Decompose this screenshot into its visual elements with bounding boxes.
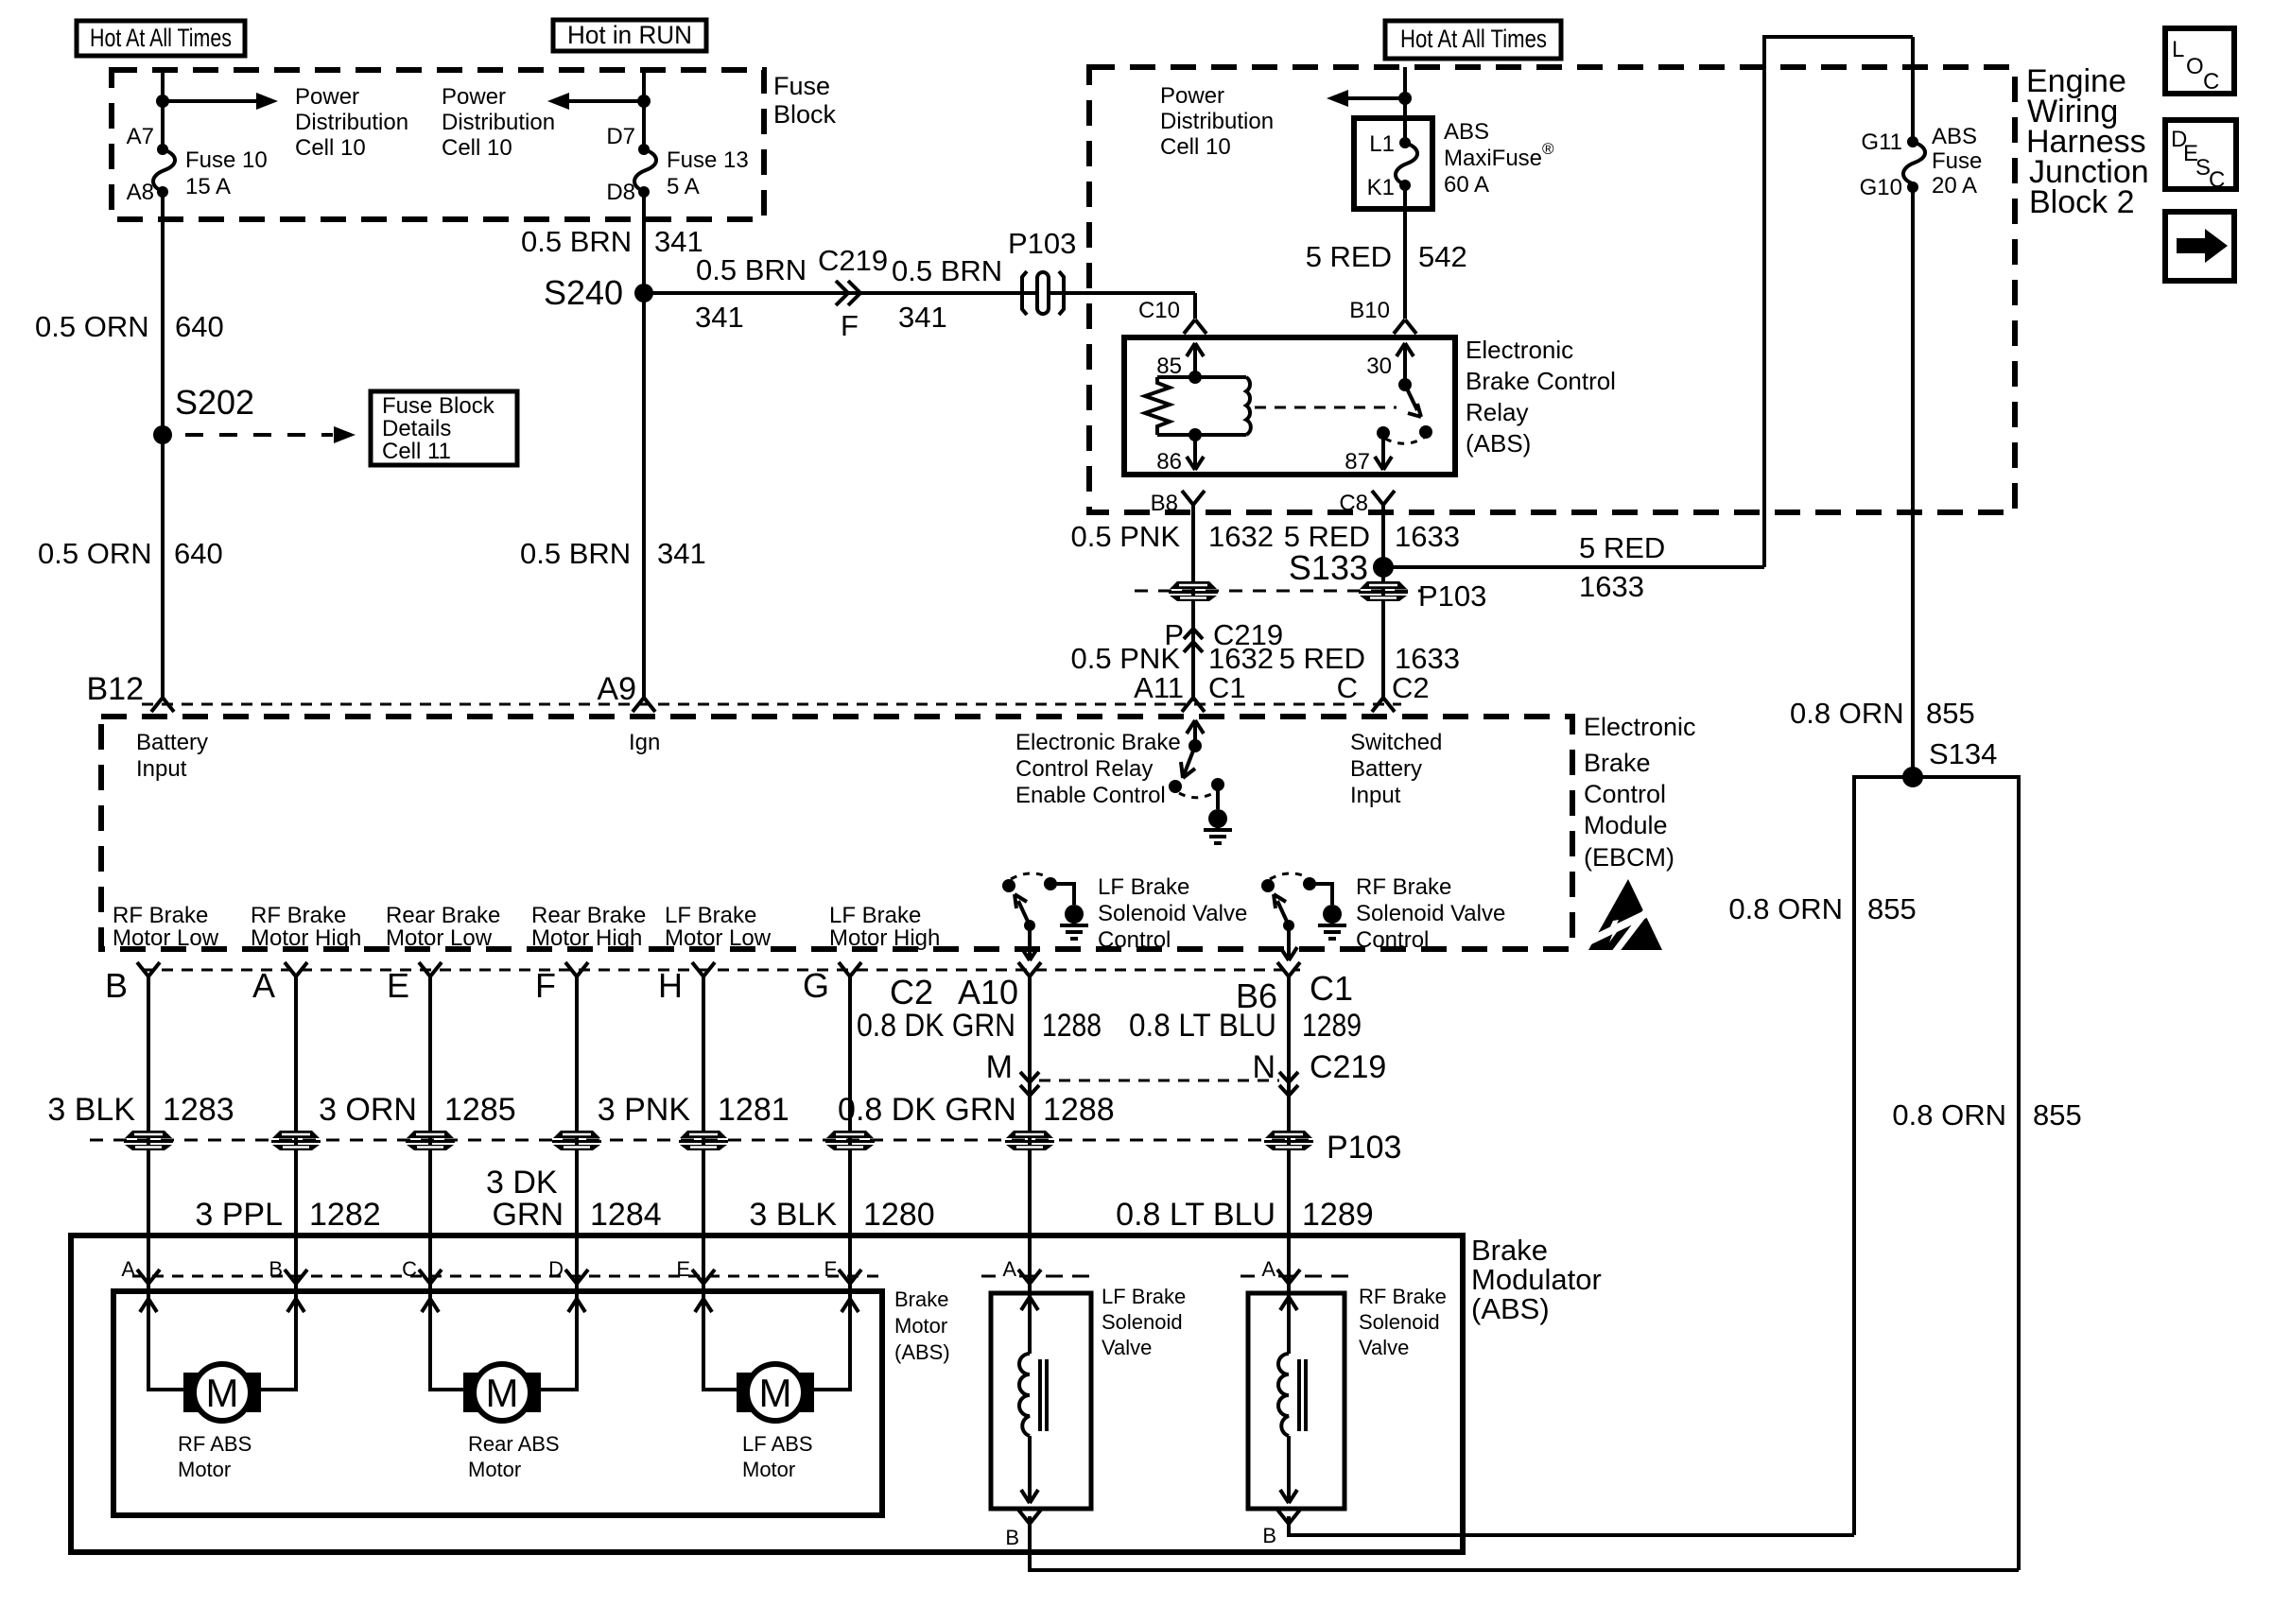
svg-text:1289: 1289	[1302, 1197, 1374, 1233]
terminal B6	[1236, 962, 1300, 1015]
relay pin 30 and switch	[1366, 343, 1432, 443]
svg-text:RF Brake: RF Brake	[251, 903, 346, 928]
wire RF solenoid column	[1289, 976, 1854, 1535]
svg-text:87: 87	[1345, 449, 1370, 475]
svg-text:B8: B8	[1151, 491, 1178, 516]
wire S240 to C10	[644, 293, 1195, 319]
label 0.8 DK GRN 1288 (row 2)	[838, 1092, 1115, 1128]
EBCM motor driver labels	[113, 903, 940, 951]
svg-text:S133: S133	[1289, 548, 1368, 587]
relay pin 85	[1156, 343, 1204, 379]
svg-text:0.8 DK GRN: 0.8 DK GRN	[838, 1092, 1016, 1128]
svg-text:Motor High: Motor High	[251, 925, 361, 951]
ESD warning symbol	[1588, 879, 1662, 955]
label Engine Wiring Harness Junction Block 2	[2026, 63, 2149, 220]
svg-text:A: A	[252, 966, 275, 1005]
svg-text:(ABS): (ABS)	[894, 1340, 950, 1364]
svg-text:0.5 BRN: 0.5 BRN	[696, 253, 807, 286]
label Brake Motor (ABS)	[894, 1287, 950, 1364]
wire C8 to C	[1381, 505, 1385, 701]
svg-text:RF Brake: RF Brake	[1356, 874, 1451, 900]
label 0.5 PNK 1632 (upper)	[1071, 520, 1274, 553]
connector C219 pin P chevrons	[1164, 618, 1283, 652]
label 5 RED 1633 (upper)	[1284, 520, 1460, 553]
svg-text:Fuse: Fuse	[1932, 148, 1982, 174]
svg-text:RF Brake: RF Brake	[1359, 1285, 1447, 1308]
svg-text:G: G	[803, 966, 829, 1005]
svg-text:1633: 1633	[1395, 520, 1460, 553]
svg-text:1284: 1284	[590, 1197, 662, 1233]
terminal A11 / C1	[1134, 671, 1246, 704]
terminal B10	[1349, 298, 1416, 334]
terminal E (modulator)	[676, 1257, 715, 1284]
relay pin 87	[1345, 437, 1392, 475]
svg-text:Modulator: Modulator	[1471, 1263, 1602, 1296]
svg-text:Brake: Brake	[1584, 749, 1651, 777]
label Switched Battery Input	[1350, 730, 1442, 808]
node junction on battery feed	[156, 95, 169, 108]
svg-text:B10: B10	[1349, 298, 1390, 323]
svg-text:Motor Low: Motor Low	[386, 925, 493, 951]
svg-text:Fuse: Fuse	[773, 72, 830, 100]
svg-text:Motor High: Motor High	[531, 925, 642, 951]
splice S202	[153, 383, 254, 444]
terminal B (RF valve)	[1262, 1510, 1300, 1547]
svg-text:30: 30	[1366, 354, 1392, 379]
svg-text:0.5 ORN: 0.5 ORN	[35, 310, 149, 343]
svg-text:Solenoid Valve: Solenoid Valve	[1356, 901, 1505, 926]
label 0.8 LT BLU 1289 (row 2)	[1116, 1197, 1373, 1233]
svg-text:F: F	[841, 309, 859, 342]
svg-text:Fuse 13: Fuse 13	[667, 147, 749, 173]
label 5 RED 1633 (lower)	[1279, 642, 1460, 675]
terminal C / C2	[1337, 671, 1430, 704]
svg-text:1283: 1283	[163, 1092, 234, 1128]
label 3 DK GRN 1284	[486, 1165, 662, 1233]
LF valve coil	[1019, 1297, 1047, 1503]
svg-text:®: ®	[1542, 140, 1554, 158]
fuse F10 15A	[127, 124, 268, 205]
svg-text:Hot At All Times: Hot At All Times	[90, 24, 232, 52]
svg-text:5 RED: 5 RED	[1306, 240, 1392, 273]
svg-text:C: C	[2209, 167, 2225, 193]
svg-text:5 A: 5 A	[667, 174, 700, 199]
svg-text:1280: 1280	[863, 1197, 935, 1233]
svg-text:855: 855	[2033, 1098, 2082, 1132]
label 3 PNK 1281	[598, 1092, 789, 1128]
label RF Brake Solenoid Valve	[1359, 1285, 1447, 1359]
svg-text:C219: C219	[818, 244, 888, 277]
svg-text:S240: S240	[544, 273, 623, 312]
label LF Brake Solenoid Valve	[1102, 1285, 1186, 1359]
wire rear motor low E column	[430, 976, 465, 1390]
svg-text:Input: Input	[1350, 783, 1401, 808]
svg-text:85: 85	[1156, 354, 1182, 379]
svg-text:3 BLK: 3 BLK	[749, 1197, 837, 1233]
svg-text:0.5 BRN: 0.5 BRN	[892, 254, 1002, 287]
svg-text:F: F	[824, 1257, 837, 1281]
svg-text:C1: C1	[1310, 969, 1353, 1008]
svg-text:Rear Brake: Rear Brake	[386, 903, 500, 928]
svg-text:Valve: Valve	[1102, 1336, 1152, 1359]
modulator connector face thin dashed line	[132, 1275, 879, 1278]
terminal D (modulator)	[548, 1257, 588, 1284]
terminal C8	[1339, 491, 1395, 516]
svg-text:Cell 11: Cell 11	[382, 439, 451, 464]
svg-text:A10: A10	[958, 973, 1018, 1011]
svg-text:C: C	[1337, 671, 1358, 704]
svg-text:0.8 LT BLU: 0.8 LT BLU	[1116, 1197, 1275, 1233]
svg-text:Distribution: Distribution	[442, 110, 555, 135]
svg-text:Block: Block	[773, 100, 837, 129]
terminal C (modulator)	[402, 1257, 442, 1284]
wire arrow to Power Distribution (junction block)	[1327, 90, 1405, 107]
wire LF solenoid column	[1030, 976, 2019, 1570]
junction block ABS fuse 20A	[1860, 37, 1983, 777]
label Brake Modulator (ABS)	[1471, 1234, 1602, 1325]
svg-text:LF Brake: LF Brake	[665, 903, 756, 928]
terminal B8	[1151, 491, 1205, 516]
RF valve coil	[1278, 1297, 1306, 1503]
terminal A10	[958, 962, 1041, 1011]
wire RF motor high A column	[259, 976, 296, 1390]
svg-text:1633: 1633	[1579, 570, 1644, 603]
svg-text:D: D	[548, 1257, 564, 1281]
svg-text:855: 855	[1926, 697, 1975, 730]
svg-text:LF Brake: LF Brake	[829, 903, 921, 928]
svg-text:O: O	[2186, 54, 2204, 79]
svg-text:0.5 BRN: 0.5 BRN	[520, 537, 631, 570]
svg-text:Control: Control	[1584, 780, 1666, 808]
svg-text:C2: C2	[890, 973, 933, 1011]
label 0.5 BRN 341 (fuse block output)	[521, 225, 703, 258]
wire LF motor low H column	[703, 976, 738, 1390]
terminal E (rear motor low)	[387, 962, 442, 1005]
wire maxifuse feed x=1486	[1403, 67, 1407, 319]
terminal F (modulator)	[824, 1257, 861, 1284]
label 5 RED 542	[1306, 240, 1467, 273]
relay pin 86	[1156, 435, 1204, 475]
fuse F13 5A	[606, 124, 748, 205]
svg-text:D7: D7	[606, 124, 635, 149]
svg-text:1633: 1633	[1395, 642, 1460, 675]
wire B8 to A11	[1191, 505, 1195, 701]
banner box Hot At All Times (right)	[1385, 21, 1561, 59]
wire arrow to Power Distribution (left)	[163, 93, 278, 110]
relay dashed actuation line	[1255, 406, 1397, 409]
svg-text:B: B	[1005, 1526, 1019, 1549]
svg-text:E: E	[676, 1257, 690, 1281]
svg-text:Input: Input	[136, 756, 187, 782]
label 0.5 ORN 640 (lower)	[38, 537, 223, 570]
svg-text:H: H	[658, 966, 683, 1005]
svg-text:GRN: GRN	[492, 1197, 564, 1233]
label 0.5 BRN 341 (lower)	[520, 537, 706, 570]
svg-text:Power: Power	[1160, 83, 1224, 109]
svg-text:C10: C10	[1138, 298, 1180, 323]
junction block 2 dashed box	[1089, 67, 2015, 512]
svg-text:B12: B12	[87, 671, 145, 707]
svg-text:K1: K1	[1367, 175, 1395, 200]
splice S134	[1902, 737, 1997, 787]
svg-text:Control Relay: Control Relay	[1015, 756, 1153, 782]
svg-text:D8: D8	[606, 180, 635, 205]
svg-text:L: L	[2172, 37, 2184, 62]
brake motor box	[113, 1291, 882, 1515]
svg-text:A: A	[1002, 1257, 1016, 1281]
terminal B (LF valve)	[1005, 1510, 1041, 1549]
wire arrow to Power Distribution (right)	[547, 93, 644, 110]
label 0.5 ORN 640 (upper)	[35, 310, 224, 343]
svg-text:Relay: Relay	[1466, 398, 1528, 426]
label 3 BLK 1283	[47, 1092, 234, 1128]
svg-text:3 DK: 3 DK	[486, 1165, 558, 1201]
svg-text:0.8 LT BLU: 0.8 LT BLU	[1129, 1008, 1276, 1044]
legend LOC box	[2165, 28, 2234, 95]
wire S133 run to junction block right	[1383, 37, 1913, 567]
svg-text:Motor Low: Motor Low	[113, 925, 219, 951]
connector C219 pin F inline chevrons	[818, 244, 888, 342]
svg-text:E: E	[387, 966, 409, 1005]
label Power Distribution Cell 10 (mid)	[442, 84, 555, 161]
svg-text:Ign: Ign	[629, 730, 660, 755]
reference box Fuse Block Details Cell 11	[371, 391, 517, 465]
terminal H (LF motor low)	[658, 962, 715, 1005]
svg-text:S134: S134	[1929, 737, 1997, 770]
terminal B12	[87, 671, 175, 712]
svg-text:1282: 1282	[309, 1197, 381, 1233]
svg-text:F: F	[535, 966, 556, 1005]
svg-text:G11: G11	[1861, 130, 1902, 155]
terminal A (RF valve)	[1241, 1257, 1356, 1284]
terminal B (modulator)	[269, 1257, 307, 1284]
label 3 ORN 1285	[319, 1092, 516, 1128]
svg-text:Solenoid Valve: Solenoid Valve	[1098, 901, 1247, 926]
svg-text:0.5 PNK: 0.5 PNK	[1071, 642, 1181, 675]
svg-text:341: 341	[695, 301, 744, 334]
terminal A (modulator)	[121, 1257, 160, 1284]
svg-text:341: 341	[657, 537, 706, 570]
svg-text:Control: Control	[1098, 927, 1171, 953]
terminal chevron A11	[1182, 698, 1205, 712]
svg-text:Electronic: Electronic	[1584, 713, 1696, 741]
svg-text:P103: P103	[1008, 227, 1076, 260]
svg-text:C1: C1	[1208, 671, 1246, 704]
svg-text:0.5 ORN: 0.5 ORN	[38, 537, 152, 570]
svg-text:1288: 1288	[1042, 1008, 1102, 1044]
svg-text:Block 2: Block 2	[2029, 184, 2135, 220]
svg-text:MaxiFuse: MaxiFuse	[1444, 146, 1542, 171]
svg-text:0.8 ORN: 0.8 ORN	[1892, 1098, 2006, 1132]
svg-text:RF Brake: RF Brake	[113, 903, 208, 928]
svg-text:Distribution: Distribution	[1160, 109, 1274, 134]
svg-text:C219: C219	[1310, 1049, 1386, 1085]
svg-text:Brake Control: Brake Control	[1466, 367, 1616, 395]
terminal chevron C	[1372, 698, 1395, 712]
label 3 BLK 1280	[749, 1197, 934, 1233]
terminal G (LF motor high)	[803, 962, 861, 1005]
svg-text:B: B	[1262, 1524, 1276, 1547]
svg-text:3 PNK: 3 PNK	[598, 1092, 691, 1128]
svg-text:640: 640	[174, 537, 223, 570]
motor Rear ABS	[463, 1364, 560, 1481]
motor LF ABS	[737, 1364, 814, 1481]
terminal F (rear motor high)	[535, 962, 588, 1005]
node junction on ignition feed	[637, 95, 651, 108]
svg-text:Motor High: Motor High	[829, 925, 940, 951]
wire LF motor high G column	[812, 976, 850, 1390]
svg-text:3 PPL: 3 PPL	[195, 1197, 283, 1233]
svg-text:Electronic: Electronic	[1466, 336, 1573, 364]
svg-text:Brake: Brake	[1471, 1234, 1548, 1267]
label RF Brake Solenoid Valve Control	[1356, 874, 1505, 953]
svg-text:15 A: 15 A	[185, 174, 231, 199]
terminal A9	[597, 671, 655, 712]
connector C219 thin dashed line	[1039, 1080, 1279, 1082]
terminal B (RF motor low)	[105, 962, 160, 1005]
svg-text:C: C	[2203, 69, 2219, 95]
svg-text:1632: 1632	[1208, 642, 1274, 675]
svg-text:P103: P103	[1327, 1130, 1401, 1166]
label LF Brake Solenoid Valve Control	[1098, 874, 1247, 953]
svg-text:A: A	[1261, 1257, 1275, 1281]
svg-text:Solenoid: Solenoid	[1102, 1310, 1183, 1334]
svg-text:0.8 ORN: 0.8 ORN	[1728, 892, 1843, 925]
EBCM RF solenoid switch	[1261, 873, 1346, 960]
splice S133	[1289, 548, 1394, 587]
svg-text:A11: A11	[1134, 671, 1184, 704]
relay coil and resistor	[1145, 371, 1251, 441]
wire rear motor high F column	[539, 976, 577, 1390]
label 0.8 ORN 855 (right)	[1892, 1098, 2081, 1132]
svg-text:Motor: Motor	[468, 1458, 521, 1481]
svg-text:Cell 10: Cell 10	[1160, 134, 1231, 160]
svg-text:Power: Power	[295, 84, 359, 110]
brake modulator box	[71, 1235, 1463, 1552]
motor feed arrowheads	[140, 1299, 157, 1312]
wire S134 loop rectangle	[1854, 777, 2019, 1570]
svg-text:855: 855	[1867, 892, 1917, 925]
label 0.8 LT BLU 1289 (row 1)	[1129, 1008, 1362, 1044]
svg-text:86: 86	[1156, 449, 1182, 475]
svg-text:542: 542	[1418, 240, 1467, 273]
terminal A (LF valve)	[981, 1257, 1097, 1284]
wire ignition feed x=681	[642, 70, 646, 698]
svg-text:M: M	[986, 1049, 1013, 1085]
svg-text:A8: A8	[127, 180, 154, 205]
label 5 RED 1633 (run)	[1579, 531, 1665, 603]
svg-text:60 A: 60 A	[1444, 172, 1489, 198]
svg-text:0.5 PNK: 0.5 PNK	[1071, 520, 1181, 553]
svg-text:Hot in RUN: Hot in RUN	[567, 21, 692, 49]
svg-text:Control: Control	[1356, 927, 1429, 953]
fuse block dashed box	[112, 70, 764, 219]
svg-text:Module: Module	[1584, 811, 1668, 839]
svg-text:ABS: ABS	[1444, 119, 1489, 145]
svg-text:Distribution: Distribution	[295, 110, 408, 135]
connector C219 pin N chevrons	[1252, 1049, 1386, 1096]
svg-text:Cell 10: Cell 10	[295, 135, 366, 161]
svg-text:RF ABS: RF ABS	[178, 1432, 252, 1456]
svg-text:1288: 1288	[1043, 1092, 1115, 1128]
svg-text:(EBCM): (EBCM)	[1584, 843, 1674, 872]
terminal A (RF motor high)	[252, 962, 307, 1005]
svg-text:Switched: Switched	[1350, 730, 1442, 755]
svg-text:3 ORN: 3 ORN	[319, 1092, 417, 1128]
svg-text:20 A: 20 A	[1932, 173, 1977, 199]
svg-text:Power: Power	[442, 84, 506, 110]
EBCM dashed box	[101, 717, 1572, 949]
svg-text:B: B	[269, 1257, 283, 1281]
connector P103 barrel on wire	[1008, 227, 1076, 315]
wire RF motor low B column	[148, 976, 185, 1390]
svg-text:Cell 10: Cell 10	[442, 135, 512, 161]
wire battery feed x=172	[161, 70, 165, 698]
svg-text:0.8 ORN: 0.8 ORN	[1790, 697, 1904, 730]
connector C219 pin M chevrons	[986, 1049, 1039, 1096]
svg-text:1289: 1289	[1302, 1008, 1362, 1044]
terminal C10	[1138, 298, 1206, 334]
label Battery Input	[136, 730, 208, 782]
svg-text:Details: Details	[382, 416, 451, 441]
svg-text:LF Brake: LF Brake	[1098, 874, 1189, 900]
svg-text:Brake: Brake	[894, 1287, 948, 1311]
svg-text:1632: 1632	[1208, 520, 1274, 553]
svg-text:L1: L1	[1369, 131, 1395, 157]
svg-text:Fuse Block: Fuse Block	[382, 393, 495, 419]
svg-text:Motor Low: Motor Low	[665, 925, 772, 951]
svg-text:0.5 BRN: 0.5 BRN	[521, 225, 632, 258]
svg-text:C8: C8	[1339, 491, 1368, 516]
label 0.5 PNK 1632 (lower)	[1071, 642, 1274, 675]
banner box Hot in RUN	[553, 20, 706, 51]
svg-text:Battery: Battery	[1350, 756, 1422, 782]
svg-text:1285: 1285	[444, 1092, 516, 1128]
label Power Distribution Cell 10 (junction block)	[1160, 83, 1274, 160]
svg-text:S202: S202	[175, 383, 254, 422]
RF solenoid valve box	[1248, 1293, 1345, 1509]
svg-text:A7: A7	[127, 124, 154, 149]
svg-text:A: A	[121, 1257, 135, 1281]
svg-text:G10: G10	[1860, 175, 1902, 200]
svg-text:B: B	[105, 966, 128, 1005]
svg-text:(ABS): (ABS)	[1471, 1292, 1550, 1325]
svg-text:5 RED: 5 RED	[1279, 642, 1365, 675]
svg-text:ABS: ABS	[1932, 124, 1977, 149]
label Power Distribution Cell 10 (left)	[295, 84, 408, 161]
svg-text:Motor: Motor	[178, 1458, 231, 1481]
relay box Electronic Brake Control Relay (ABS)	[1124, 337, 1455, 475]
svg-text:Electronic Brake: Electronic Brake	[1015, 730, 1181, 755]
svg-text:(ABS): (ABS)	[1466, 429, 1531, 458]
EBCM LF solenoid switch	[1002, 873, 1088, 960]
svg-text:LF Brake: LF Brake	[1102, 1285, 1186, 1308]
dashed reference arrow from S202	[185, 426, 356, 443]
svg-text:Motor: Motor	[742, 1458, 795, 1481]
EBCM connector face thin dashed line (bottom)	[142, 969, 1300, 972]
LF solenoid valve box	[991, 1293, 1091, 1509]
motor RF ABS	[178, 1364, 261, 1481]
svg-text:Fuse 10: Fuse 10	[185, 147, 268, 173]
label 0.8 DK GRN 1288 (row 1)	[857, 1008, 1102, 1044]
banner box Hot At All Times (left)	[77, 21, 245, 56]
EBCM relay enable control switch	[1015, 720, 1232, 843]
node junction on maxifuse feed	[1398, 92, 1412, 105]
svg-text:Battery: Battery	[136, 730, 208, 755]
svg-text:A9: A9	[597, 671, 636, 707]
svg-text:5 RED: 5 RED	[1579, 531, 1665, 564]
legend DESC box	[2165, 120, 2236, 193]
